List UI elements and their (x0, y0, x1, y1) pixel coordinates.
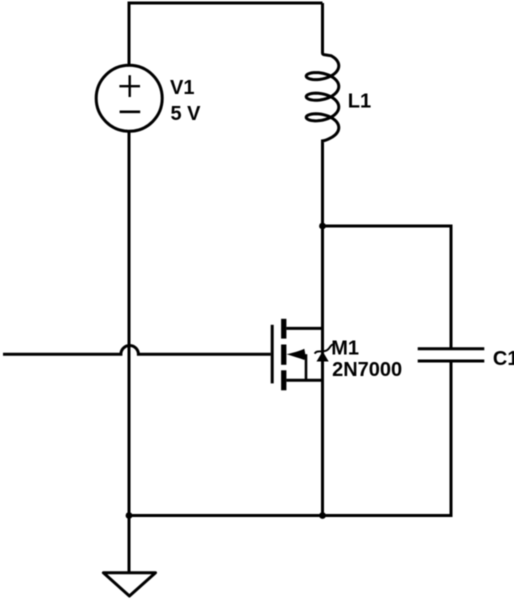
capacitor C1 top plate (418, 347, 485, 350)
svg-text:5 V: 5 V (171, 103, 202, 125)
svg-text:L1: L1 (348, 91, 371, 113)
wire top rail from V1 to L1 (129, 2, 323, 5)
wire C1 bottom lead to bottom rail (129, 361, 451, 516)
inductor L1 coil with top and bottom leads (306, 3, 339, 226)
transistor M1 body to source link (305, 354, 308, 380)
svg-text:M1: M1 (331, 337, 359, 359)
V1 minus sign (120, 111, 141, 114)
svg-text:V1: V1 (170, 77, 194, 99)
wire gate input from left edge with hop over V1 wire (3, 346, 271, 355)
voltage source V1 circle (96, 65, 162, 131)
node junction dot drain/L1/C1 (319, 223, 326, 230)
transistor M1 channel segment bottom (281, 370, 286, 390)
ground symbol triangle (103, 573, 155, 596)
transistor M1 body arrow pointing to channel (287, 349, 306, 360)
wire V1 bottom lead down to ground node (128, 131, 131, 515)
transistor M1 source arrow (up triangle on wire) (317, 351, 329, 361)
svg-text:C1: C1 (493, 348, 514, 370)
transistor M1 channel segment top (281, 319, 286, 339)
capacitor C1 bottom plate (418, 360, 485, 363)
transistor M1 source connection (286, 379, 322, 382)
transistor M1 channel segment middle (281, 345, 286, 365)
wire M1 drain/source vertical through symbol (321, 226, 324, 516)
node junction dot source/bottom rail (319, 512, 326, 519)
wire V1 top lead (128, 2, 131, 66)
transistor M1 drain connection (286, 327, 322, 330)
V1 plus sign (119, 75, 140, 97)
transistor M1 squiggle mark above arrow (315, 345, 335, 354)
wire from node to C1 top (323, 226, 452, 349)
wire ground lead (128, 516, 131, 573)
node junction dot ground rail left (126, 512, 133, 519)
svg-text:2N7000: 2N7000 (332, 359, 402, 381)
transistor M1 gate bar (271, 325, 274, 384)
